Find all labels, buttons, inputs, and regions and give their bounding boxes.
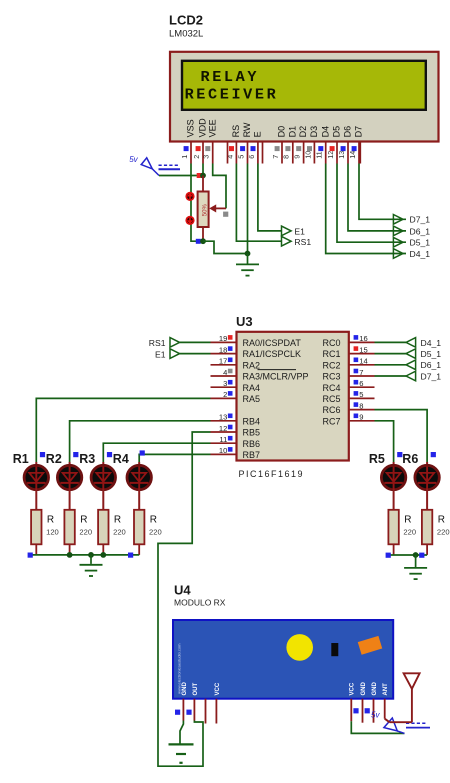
LED R2 label xyxy=(46,452,62,466)
svg-text:120: 120 xyxy=(46,527,59,536)
U3 pin 6 RC4 xyxy=(322,379,374,393)
marker blue square at R4 xyxy=(140,450,145,455)
svg-text:U3: U3 xyxy=(236,314,253,329)
svg-text:D6_1: D6_1 xyxy=(410,226,431,236)
svg-text:R6: R6 xyxy=(402,452,418,466)
LCD screen text line2 RECEIVER xyxy=(185,86,279,104)
svg-text:D0: D0 xyxy=(277,126,287,138)
LED R1 label xyxy=(13,452,29,466)
U3 pin 7 RC3 xyxy=(322,368,374,382)
svg-text:D4: D4 xyxy=(320,126,330,138)
LED R3 label xyxy=(79,452,95,466)
marker gray square at wiper xyxy=(223,212,228,217)
svg-text:D5_1: D5_1 xyxy=(410,238,431,248)
junction dot VDD/pot top xyxy=(200,173,206,179)
svg-text:RA1/ICSPCLK: RA1/ICSPCLK xyxy=(243,349,302,359)
svg-text:D4_1: D4_1 xyxy=(410,249,431,259)
svg-text:LM032L: LM032L xyxy=(169,29,203,40)
svg-text:3: 3 xyxy=(202,155,211,159)
terminal E1 (PIC side) xyxy=(155,349,211,360)
U4 left pin GND xyxy=(182,682,188,721)
svg-text:5v: 5v xyxy=(129,155,138,164)
LCD pin 3 VEE xyxy=(202,119,218,163)
svg-text:RA3/MCLR/VPP: RA3/MCLR/VPP xyxy=(243,372,309,382)
svg-text:GND: GND xyxy=(361,682,367,696)
marker blue square at R1 xyxy=(40,452,45,457)
LCD pin 13 D6 xyxy=(337,126,353,164)
marker blue square rail2 left xyxy=(386,553,391,558)
U4 left pin VCC xyxy=(215,682,221,723)
U3 pin 5 RC5 xyxy=(322,390,374,404)
svg-text:D5: D5 xyxy=(332,126,342,138)
svg-text:11: 11 xyxy=(315,151,324,158)
U3 pin 12 RB5 xyxy=(211,424,261,438)
svg-text:RC4: RC4 xyxy=(322,383,340,393)
U4 right pin GND2 xyxy=(372,682,378,723)
svg-text:50%: 50% xyxy=(203,204,209,217)
U4 left pin OUT xyxy=(193,683,199,721)
U3 pin 14 RC2 xyxy=(322,357,374,371)
LCD pin 7 D0 xyxy=(271,126,287,164)
svg-text:220: 220 xyxy=(79,527,92,536)
svg-text:RA5: RA5 xyxy=(243,394,261,404)
U4 left pin NC xyxy=(205,699,207,724)
wire RS pin4 to RS1 terminal xyxy=(236,164,281,242)
wire RC0 pin16 to D4_1 xyxy=(375,341,407,343)
wire RC1 pin15 to D5_1 xyxy=(375,353,407,355)
wire RC6 pin8 to LED R6 xyxy=(375,410,428,462)
wire RB6 pin11 to LED R3 xyxy=(103,443,210,462)
wire pot bottom to ground rail xyxy=(203,241,248,253)
svg-text:13: 13 xyxy=(337,151,346,159)
pot decrement button xyxy=(185,216,194,225)
wire D6 pin13 to D6_1 xyxy=(348,164,406,231)
ground symbol under U4 xyxy=(169,744,194,763)
U3 pin 13 RB4 xyxy=(211,413,261,427)
svg-text:LCD2: LCD2 xyxy=(169,13,203,28)
U3 pin 9 RC7 xyxy=(322,413,374,427)
pot increment button xyxy=(185,192,194,201)
wire D5 pin12 to D5_1 xyxy=(337,164,406,243)
LED R6 label xyxy=(402,452,418,466)
U3 pin 11 RB6 xyxy=(211,435,261,449)
U3 pin 18 RA1/ICSPCLK xyxy=(211,345,302,359)
svg-text:16: 16 xyxy=(359,334,367,343)
svg-text:RC6: RC6 xyxy=(322,405,340,415)
svg-text:D7: D7 xyxy=(354,126,364,138)
terminal D4_1 (PIC side) xyxy=(406,338,441,348)
LED R5 label xyxy=(369,452,385,466)
svg-text:RA0/ICSPDAT: RA0/ICSPDAT xyxy=(243,338,302,348)
ground symbol under R1-R4 xyxy=(80,555,103,576)
svg-text:D6_1: D6_1 xyxy=(421,360,442,370)
LED R5 xyxy=(381,462,405,510)
svg-text:14: 14 xyxy=(359,357,367,366)
terminal D7_1 (LCD side) xyxy=(393,215,430,225)
svg-text:5v: 5v xyxy=(371,710,380,719)
svg-text:RB4: RB4 xyxy=(243,416,261,426)
svg-text:R3: R3 xyxy=(79,452,95,466)
svg-text:RB5: RB5 xyxy=(243,428,261,438)
potentiometer top terminal xyxy=(202,176,204,192)
wire U4 VCC to 5v xyxy=(351,721,404,733)
svg-text:1: 1 xyxy=(180,155,189,159)
terminal RS1 (LCD side) xyxy=(282,236,312,247)
U3 pin 3 RA4 xyxy=(211,379,261,393)
svg-text:RA2: RA2 xyxy=(243,360,261,370)
svg-text:RS1: RS1 xyxy=(149,338,166,348)
svg-text:E1: E1 xyxy=(294,226,305,236)
chip U3 part label PIC16F1619 xyxy=(239,469,305,479)
svg-text:RB7: RB7 xyxy=(243,450,261,460)
svg-text:10: 10 xyxy=(219,446,227,455)
marker blue square rail right xyxy=(128,553,133,558)
terminal D7_1 (PIC side) xyxy=(406,371,441,381)
U3 pin 19 RA0/ICSPDAT xyxy=(211,334,302,348)
svg-text:220: 220 xyxy=(113,527,126,536)
svg-text:9: 9 xyxy=(293,155,302,159)
svg-text:RC1: RC1 xyxy=(322,349,340,359)
potentiometer wiper arrow xyxy=(210,205,226,211)
terminal D5_1 (LCD side) xyxy=(393,237,430,247)
U4 right pin GND xyxy=(361,682,367,723)
LCD pin group wall c xyxy=(359,142,361,164)
svg-text:RA4: RA4 xyxy=(243,383,261,393)
svg-text:10: 10 xyxy=(303,151,312,159)
svg-text:7: 7 xyxy=(271,155,280,159)
svg-text:8: 8 xyxy=(282,155,291,159)
U3 pin 10 RB7 xyxy=(211,446,261,460)
LCD pin 10 D3 xyxy=(303,126,319,164)
potentiometer body 50% xyxy=(198,192,209,228)
svg-text:12: 12 xyxy=(219,424,227,433)
svg-text:3: 3 xyxy=(223,379,227,388)
LED R1 xyxy=(24,462,48,510)
LCD pin 14 D7 xyxy=(348,126,364,164)
module designator U4 xyxy=(174,583,191,598)
wire ground rail R1-R4 xyxy=(30,554,139,556)
svg-text:15: 15 xyxy=(359,345,367,354)
svg-text:R: R xyxy=(404,515,411,526)
svg-text:2: 2 xyxy=(223,390,227,399)
svg-text:RC3: RC3 xyxy=(322,372,340,382)
ground symbol under R5-R6 xyxy=(404,555,427,579)
LED R4 xyxy=(127,462,151,510)
svg-text:RELAY: RELAY xyxy=(201,68,260,86)
LCD screen text line1 RELAY xyxy=(201,68,260,86)
svg-text:220: 220 xyxy=(403,527,416,536)
svg-text:E1: E1 xyxy=(155,349,166,359)
wire RW pin5 to ground xyxy=(247,164,249,254)
ground symbol under LCD xyxy=(236,254,259,276)
LCD pin 8 D1 xyxy=(282,126,298,164)
LCD pin 1 VSS xyxy=(180,119,196,163)
svg-text:7: 7 xyxy=(359,368,363,377)
wire RA5 pin2 to LED R1 xyxy=(36,398,210,462)
wire VEE pin3 to pot wiper xyxy=(213,164,226,209)
svg-text:R1: R1 xyxy=(13,452,29,466)
wire ground rail R5-R6 xyxy=(388,554,427,556)
resistor under R3 value 220 xyxy=(98,510,126,555)
antenna xyxy=(385,673,420,722)
wire D4 pin11 to D4_1 xyxy=(326,164,406,254)
marker blue square rail left xyxy=(28,553,33,558)
svg-text:6: 6 xyxy=(247,155,256,159)
svg-text:R: R xyxy=(438,515,445,526)
wire D7 pin14 to D7_1 xyxy=(359,164,406,220)
resistor under R6 value 220 xyxy=(422,510,450,555)
svg-text:D1: D1 xyxy=(287,126,297,138)
U3 pin 17 RA2 xyxy=(211,357,261,371)
terminal D6_1 (PIC side) xyxy=(406,360,441,370)
marker blue square at R3 xyxy=(107,452,112,457)
svg-text:RS: RS xyxy=(231,125,241,138)
U3 pin 2 RA5 xyxy=(211,390,261,404)
resistor under R2 value 220 xyxy=(64,510,92,555)
LED R6 xyxy=(415,462,439,510)
terminal RS1 (PIC side) xyxy=(149,338,211,349)
svg-text:OUT: OUT xyxy=(193,683,199,696)
wire U4 GND to ground xyxy=(180,721,183,744)
svg-text:VDD: VDD xyxy=(198,118,208,138)
svg-text:RC2: RC2 xyxy=(322,360,340,370)
marker blue square rail2 right xyxy=(419,553,424,558)
LCD screen xyxy=(181,60,427,111)
marker blue square at R5 xyxy=(397,452,402,457)
terminal D6_1 (LCD side) xyxy=(393,226,430,236)
junction dot rail R2 xyxy=(67,552,73,558)
svg-text:220: 220 xyxy=(149,527,162,536)
U3 pin 16 RC0 xyxy=(322,334,374,348)
module U4 black component xyxy=(331,643,338,656)
svg-text:MODULO RX: MODULO RX xyxy=(174,598,226,608)
LCD pin 2 VDD xyxy=(192,118,208,164)
wire VSS pin1 to pot bottom xyxy=(191,164,203,242)
svg-text:5: 5 xyxy=(236,155,245,159)
svg-text:2: 2 xyxy=(192,155,201,159)
module U4 body xyxy=(173,620,393,699)
svg-text:4: 4 xyxy=(223,368,227,377)
svg-text:9: 9 xyxy=(359,413,363,422)
resistor under R5 value 220 xyxy=(388,510,416,555)
svg-text:19: 19 xyxy=(219,334,227,343)
marker blue square at pot bottom xyxy=(196,239,201,244)
U3 pin 8 RC6 xyxy=(322,401,374,415)
svg-text:R5: R5 xyxy=(369,452,385,466)
wire RB4 pin13 to LED R2 xyxy=(70,421,211,462)
marker red square at VDD junction xyxy=(197,173,202,178)
svg-text:5: 5 xyxy=(359,390,363,399)
wire RC3 pin7 to D7_1 xyxy=(375,375,407,377)
LCD LM032L body xyxy=(170,52,439,142)
svg-text:RECEIVER: RECEIVER xyxy=(185,86,279,104)
marker blue squares U4 right xyxy=(353,708,369,713)
svg-text:18: 18 xyxy=(219,345,227,354)
U4 right pin ANT xyxy=(383,683,389,719)
svg-text:R: R xyxy=(47,515,54,526)
chip designator U3 xyxy=(236,314,253,329)
terminal D4_1 (LCD side) xyxy=(393,249,430,259)
svg-text:VCC: VCC xyxy=(215,682,221,695)
LCD pin 11 D4 xyxy=(315,126,331,164)
marker blue square at R6 xyxy=(431,452,436,457)
LCD pin 6 E xyxy=(247,131,263,163)
svg-text:R: R xyxy=(114,515,121,526)
U4 right pin VCC xyxy=(350,682,356,721)
LCD pin group wall a xyxy=(227,142,229,164)
svg-text:220: 220 xyxy=(437,527,450,536)
wire 5v to VDD junction xyxy=(159,175,203,177)
U3 pin 15 RC1 xyxy=(322,345,374,359)
wire E pin6 to E1 terminal xyxy=(258,164,282,231)
potentiometer bottom terminal xyxy=(202,227,204,241)
power terminal 5v (U4) xyxy=(371,710,430,733)
svg-text:D3: D3 xyxy=(309,126,319,138)
svg-text:R2: R2 xyxy=(46,452,62,466)
junction dot rail R3 xyxy=(100,552,106,558)
module label MODULO RX xyxy=(174,598,226,608)
svg-text:U4: U4 xyxy=(174,583,191,598)
wire RC7 pin9 to LED R5 xyxy=(375,421,394,462)
svg-text:17: 17 xyxy=(219,357,227,366)
marker blue square at R2 xyxy=(73,452,78,457)
svg-text:D4_1: D4_1 xyxy=(421,338,442,348)
junction dot RW/ground xyxy=(245,251,251,257)
svg-text:R4: R4 xyxy=(113,452,129,466)
svg-text:D2: D2 xyxy=(298,126,308,138)
svg-text:D7_1: D7_1 xyxy=(421,371,442,381)
svg-text:RC5: RC5 xyxy=(322,394,340,404)
LCD pin 4 RS xyxy=(225,125,241,164)
svg-text:RC0: RC0 xyxy=(322,338,340,348)
svg-text:VEE: VEE xyxy=(207,119,217,137)
svg-text:RC7: RC7 xyxy=(322,416,340,426)
marker blue squares U4 left xyxy=(175,710,192,715)
LCD part label LM032L xyxy=(169,29,203,40)
LCD designator label LCD2 xyxy=(169,13,203,28)
svg-text:11: 11 xyxy=(219,435,227,444)
svg-text:D5_1: D5_1 xyxy=(421,349,442,359)
svg-text:E: E xyxy=(253,131,263,137)
power terminal 5v (top) xyxy=(129,155,180,176)
svg-text:R: R xyxy=(150,515,157,526)
wire RB7 pin10 to LED R4 xyxy=(139,454,210,462)
LCD pin 12 D5 xyxy=(326,126,342,164)
chip U3 body xyxy=(237,332,349,461)
LCD pin group wall b xyxy=(262,142,264,164)
svg-text:13: 13 xyxy=(219,413,227,422)
junction dot rail ground tap xyxy=(88,552,94,558)
svg-text:ANT: ANT xyxy=(383,683,389,696)
U3 pin 4 RA3/MCLR/VPP xyxy=(211,368,309,382)
svg-text:8: 8 xyxy=(359,401,363,410)
LCD pin 5 RW xyxy=(236,122,252,163)
svg-text:GND: GND xyxy=(182,682,188,696)
resistor under R1 value 120 xyxy=(31,510,59,555)
svg-text:VCC: VCC xyxy=(350,682,356,695)
svg-text:D6: D6 xyxy=(343,126,353,138)
svg-text:12: 12 xyxy=(326,151,335,159)
svg-text:PIC16F1619: PIC16F1619 xyxy=(239,469,305,479)
svg-text:R: R xyxy=(80,515,87,526)
module U4 yellow circle xyxy=(286,634,313,661)
junction dot rail2 ground tap xyxy=(413,552,419,558)
svg-text:14: 14 xyxy=(348,151,357,159)
svg-text:VSS: VSS xyxy=(186,119,196,137)
resistor under R4 value 220 xyxy=(134,510,162,555)
svg-text:RS1: RS1 xyxy=(294,237,311,247)
wire VDD pin2 to 5v rail xyxy=(202,164,204,176)
svg-text:GND: GND xyxy=(372,682,378,696)
svg-text:RW: RW xyxy=(242,122,252,137)
junction dot pot bottom xyxy=(200,238,206,244)
terminal D5_1 (PIC side) xyxy=(406,349,441,359)
LED R3 xyxy=(91,462,115,510)
LED R2 xyxy=(57,462,81,510)
LED R4 label xyxy=(113,452,129,466)
LCD pin 9 D2 xyxy=(293,126,309,164)
svg-text:RB6: RB6 xyxy=(243,439,261,449)
terminal E1 (LCD side) xyxy=(282,226,306,236)
wire RC2 pin14 to D6_1 xyxy=(375,364,407,366)
wire RB5 pin12 to U4 OUT xyxy=(158,432,211,766)
svg-text:6: 6 xyxy=(359,379,363,388)
module U4 orange component xyxy=(358,636,383,655)
svg-text:D7_1: D7_1 xyxy=(410,215,431,225)
